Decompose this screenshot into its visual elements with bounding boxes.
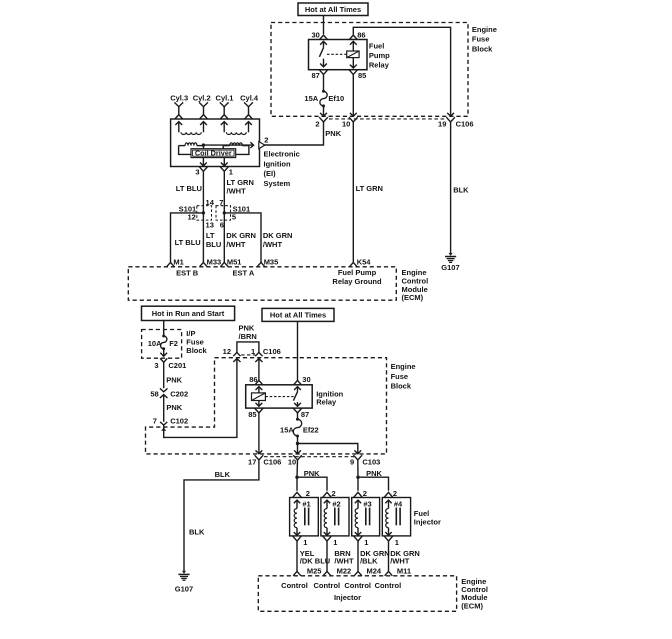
svg-text:Cyl.1: Cyl.1: [216, 93, 234, 102]
svg-text:BLK: BLK: [189, 528, 205, 537]
svg-text:Fuel: Fuel: [369, 42, 384, 51]
svg-text:19: 19: [438, 119, 446, 128]
svg-text:/WHT: /WHT: [227, 186, 247, 195]
svg-text:C106: C106: [263, 347, 281, 356]
svg-text:Relay: Relay: [316, 398, 337, 407]
svg-text:2: 2: [393, 489, 397, 498]
svg-text:Control: Control: [281, 581, 308, 590]
svg-text:PNK: PNK: [325, 129, 341, 138]
svg-text:2: 2: [306, 489, 310, 498]
svg-text:BLK: BLK: [215, 470, 231, 479]
svg-text:C201: C201: [168, 361, 186, 370]
svg-text:M11: M11: [397, 566, 411, 575]
svg-text:Engine: Engine: [472, 25, 497, 34]
svg-text:#3: #3: [363, 499, 371, 508]
svg-text:1: 1: [395, 538, 399, 547]
svg-text:Hot at All Times: Hot at All Times: [270, 310, 326, 319]
svg-text:10: 10: [288, 457, 296, 466]
svg-text:DK GRN: DK GRN: [263, 231, 293, 240]
svg-text:2: 2: [363, 489, 367, 498]
svg-text:M25: M25: [307, 566, 322, 575]
svg-text:2: 2: [332, 489, 336, 498]
svg-text:Electronic: Electronic: [264, 150, 300, 159]
svg-text:86: 86: [249, 375, 257, 384]
svg-text:Pump: Pump: [369, 51, 390, 60]
svg-text:G107: G107: [441, 263, 459, 272]
svg-text:M1: M1: [173, 258, 183, 267]
svg-text:Ef22: Ef22: [303, 426, 319, 435]
svg-text:Cyl.2: Cyl.2: [193, 93, 211, 102]
svg-text:1: 1: [333, 538, 337, 547]
svg-text:2: 2: [264, 136, 268, 145]
svg-text:1: 1: [303, 538, 307, 547]
svg-text:LT GRN: LT GRN: [356, 184, 383, 193]
svg-text:LT: LT: [206, 231, 215, 240]
svg-text:Cyl.4: Cyl.4: [240, 93, 259, 102]
svg-text:PNK: PNK: [366, 469, 382, 478]
svg-text:/BRN: /BRN: [239, 332, 257, 341]
svg-text:30: 30: [302, 375, 310, 384]
svg-text:/DK BLU: /DK BLU: [300, 557, 330, 566]
svg-text:Injector: Injector: [414, 517, 441, 526]
svg-text:87: 87: [301, 410, 309, 419]
svg-text:17: 17: [248, 457, 256, 466]
svg-text:12: 12: [187, 212, 195, 221]
svg-text:Ignition: Ignition: [264, 159, 291, 168]
svg-text:M35: M35: [264, 258, 279, 267]
svg-text:9: 9: [350, 457, 354, 466]
svg-text:#4: #4: [394, 499, 403, 508]
svg-text:PNK: PNK: [166, 375, 182, 384]
svg-text:PNK: PNK: [304, 469, 320, 478]
svg-text:5: 5: [232, 212, 236, 221]
svg-text:6: 6: [220, 221, 224, 230]
svg-text:EST B: EST B: [176, 268, 199, 277]
svg-text:10A: 10A: [148, 339, 162, 348]
svg-text:#1: #1: [302, 499, 310, 508]
svg-text:C106: C106: [263, 457, 281, 466]
svg-text:M51: M51: [227, 258, 242, 267]
svg-text:K54: K54: [357, 258, 372, 267]
svg-text:Control: Control: [375, 581, 402, 590]
svg-text:DK GRN: DK GRN: [226, 231, 256, 240]
svg-text:85: 85: [248, 410, 256, 419]
svg-text:/WHT: /WHT: [390, 557, 410, 566]
svg-text:EST A: EST A: [233, 268, 255, 277]
svg-text:Hot in Run and Start: Hot in Run and Start: [152, 309, 225, 318]
svg-text:Coil Driver: Coil Driver: [195, 149, 232, 158]
svg-text:System: System: [264, 179, 291, 188]
svg-text:1: 1: [229, 168, 233, 177]
svg-text:/WHT: /WHT: [334, 557, 354, 566]
svg-text:Control: Control: [344, 581, 371, 590]
svg-text:#2: #2: [332, 499, 340, 508]
svg-text:Fuse: Fuse: [472, 35, 490, 44]
svg-text:BLU: BLU: [206, 240, 221, 249]
svg-text:58: 58: [150, 390, 158, 399]
svg-text:C102: C102: [170, 417, 188, 426]
svg-text:30: 30: [311, 31, 319, 40]
svg-text:Cyl.3: Cyl.3: [170, 93, 188, 102]
svg-text:Hot at All Times: Hot at All Times: [305, 5, 361, 14]
svg-text:86: 86: [357, 31, 365, 40]
svg-text:Relay: Relay: [369, 60, 390, 69]
svg-text:C106: C106: [456, 119, 474, 128]
svg-text:(ECM): (ECM): [402, 293, 424, 302]
svg-text:M22: M22: [337, 566, 352, 575]
svg-text:15A: 15A: [304, 94, 318, 103]
svg-text:Block: Block: [472, 45, 493, 54]
svg-text:PNK: PNK: [166, 403, 182, 412]
svg-text:Block: Block: [391, 382, 412, 391]
svg-text:13: 13: [206, 221, 214, 230]
svg-text:/BLK: /BLK: [360, 557, 378, 566]
svg-text:M24: M24: [367, 566, 382, 575]
svg-text:1: 1: [364, 538, 368, 547]
svg-text:85: 85: [358, 71, 366, 80]
svg-text:7: 7: [219, 198, 223, 207]
svg-text:12: 12: [223, 347, 231, 356]
svg-text:2: 2: [315, 119, 319, 128]
svg-text:15A: 15A: [280, 426, 294, 435]
svg-text:LT BLU: LT BLU: [176, 184, 202, 193]
svg-text:(EI): (EI): [264, 169, 277, 178]
svg-text:C103: C103: [362, 457, 380, 466]
svg-text:87: 87: [311, 71, 319, 80]
svg-text:F2: F2: [169, 339, 178, 348]
svg-text:3: 3: [154, 361, 158, 370]
svg-text:7: 7: [153, 417, 157, 426]
svg-text:Ef10: Ef10: [328, 94, 344, 103]
svg-text:3: 3: [195, 168, 199, 177]
svg-text:Engine: Engine: [391, 362, 416, 371]
svg-text:BLK: BLK: [453, 186, 469, 195]
svg-text:Relay Ground: Relay Ground: [332, 277, 382, 286]
svg-text:G107: G107: [175, 585, 193, 594]
svg-text:Control: Control: [313, 581, 340, 590]
svg-text:14: 14: [206, 198, 215, 207]
svg-text:Injector: Injector: [334, 593, 361, 602]
svg-text:LT BLU: LT BLU: [175, 238, 201, 247]
svg-text:C202: C202: [170, 390, 188, 399]
svg-text:/WHT: /WHT: [226, 240, 246, 249]
svg-text:Fuse: Fuse: [391, 372, 409, 381]
svg-text:10: 10: [342, 119, 350, 128]
svg-text:M33: M33: [207, 258, 222, 267]
svg-text:Block: Block: [186, 346, 207, 355]
svg-text:/WHT: /WHT: [263, 240, 283, 249]
svg-text:(ECM): (ECM): [461, 601, 483, 610]
